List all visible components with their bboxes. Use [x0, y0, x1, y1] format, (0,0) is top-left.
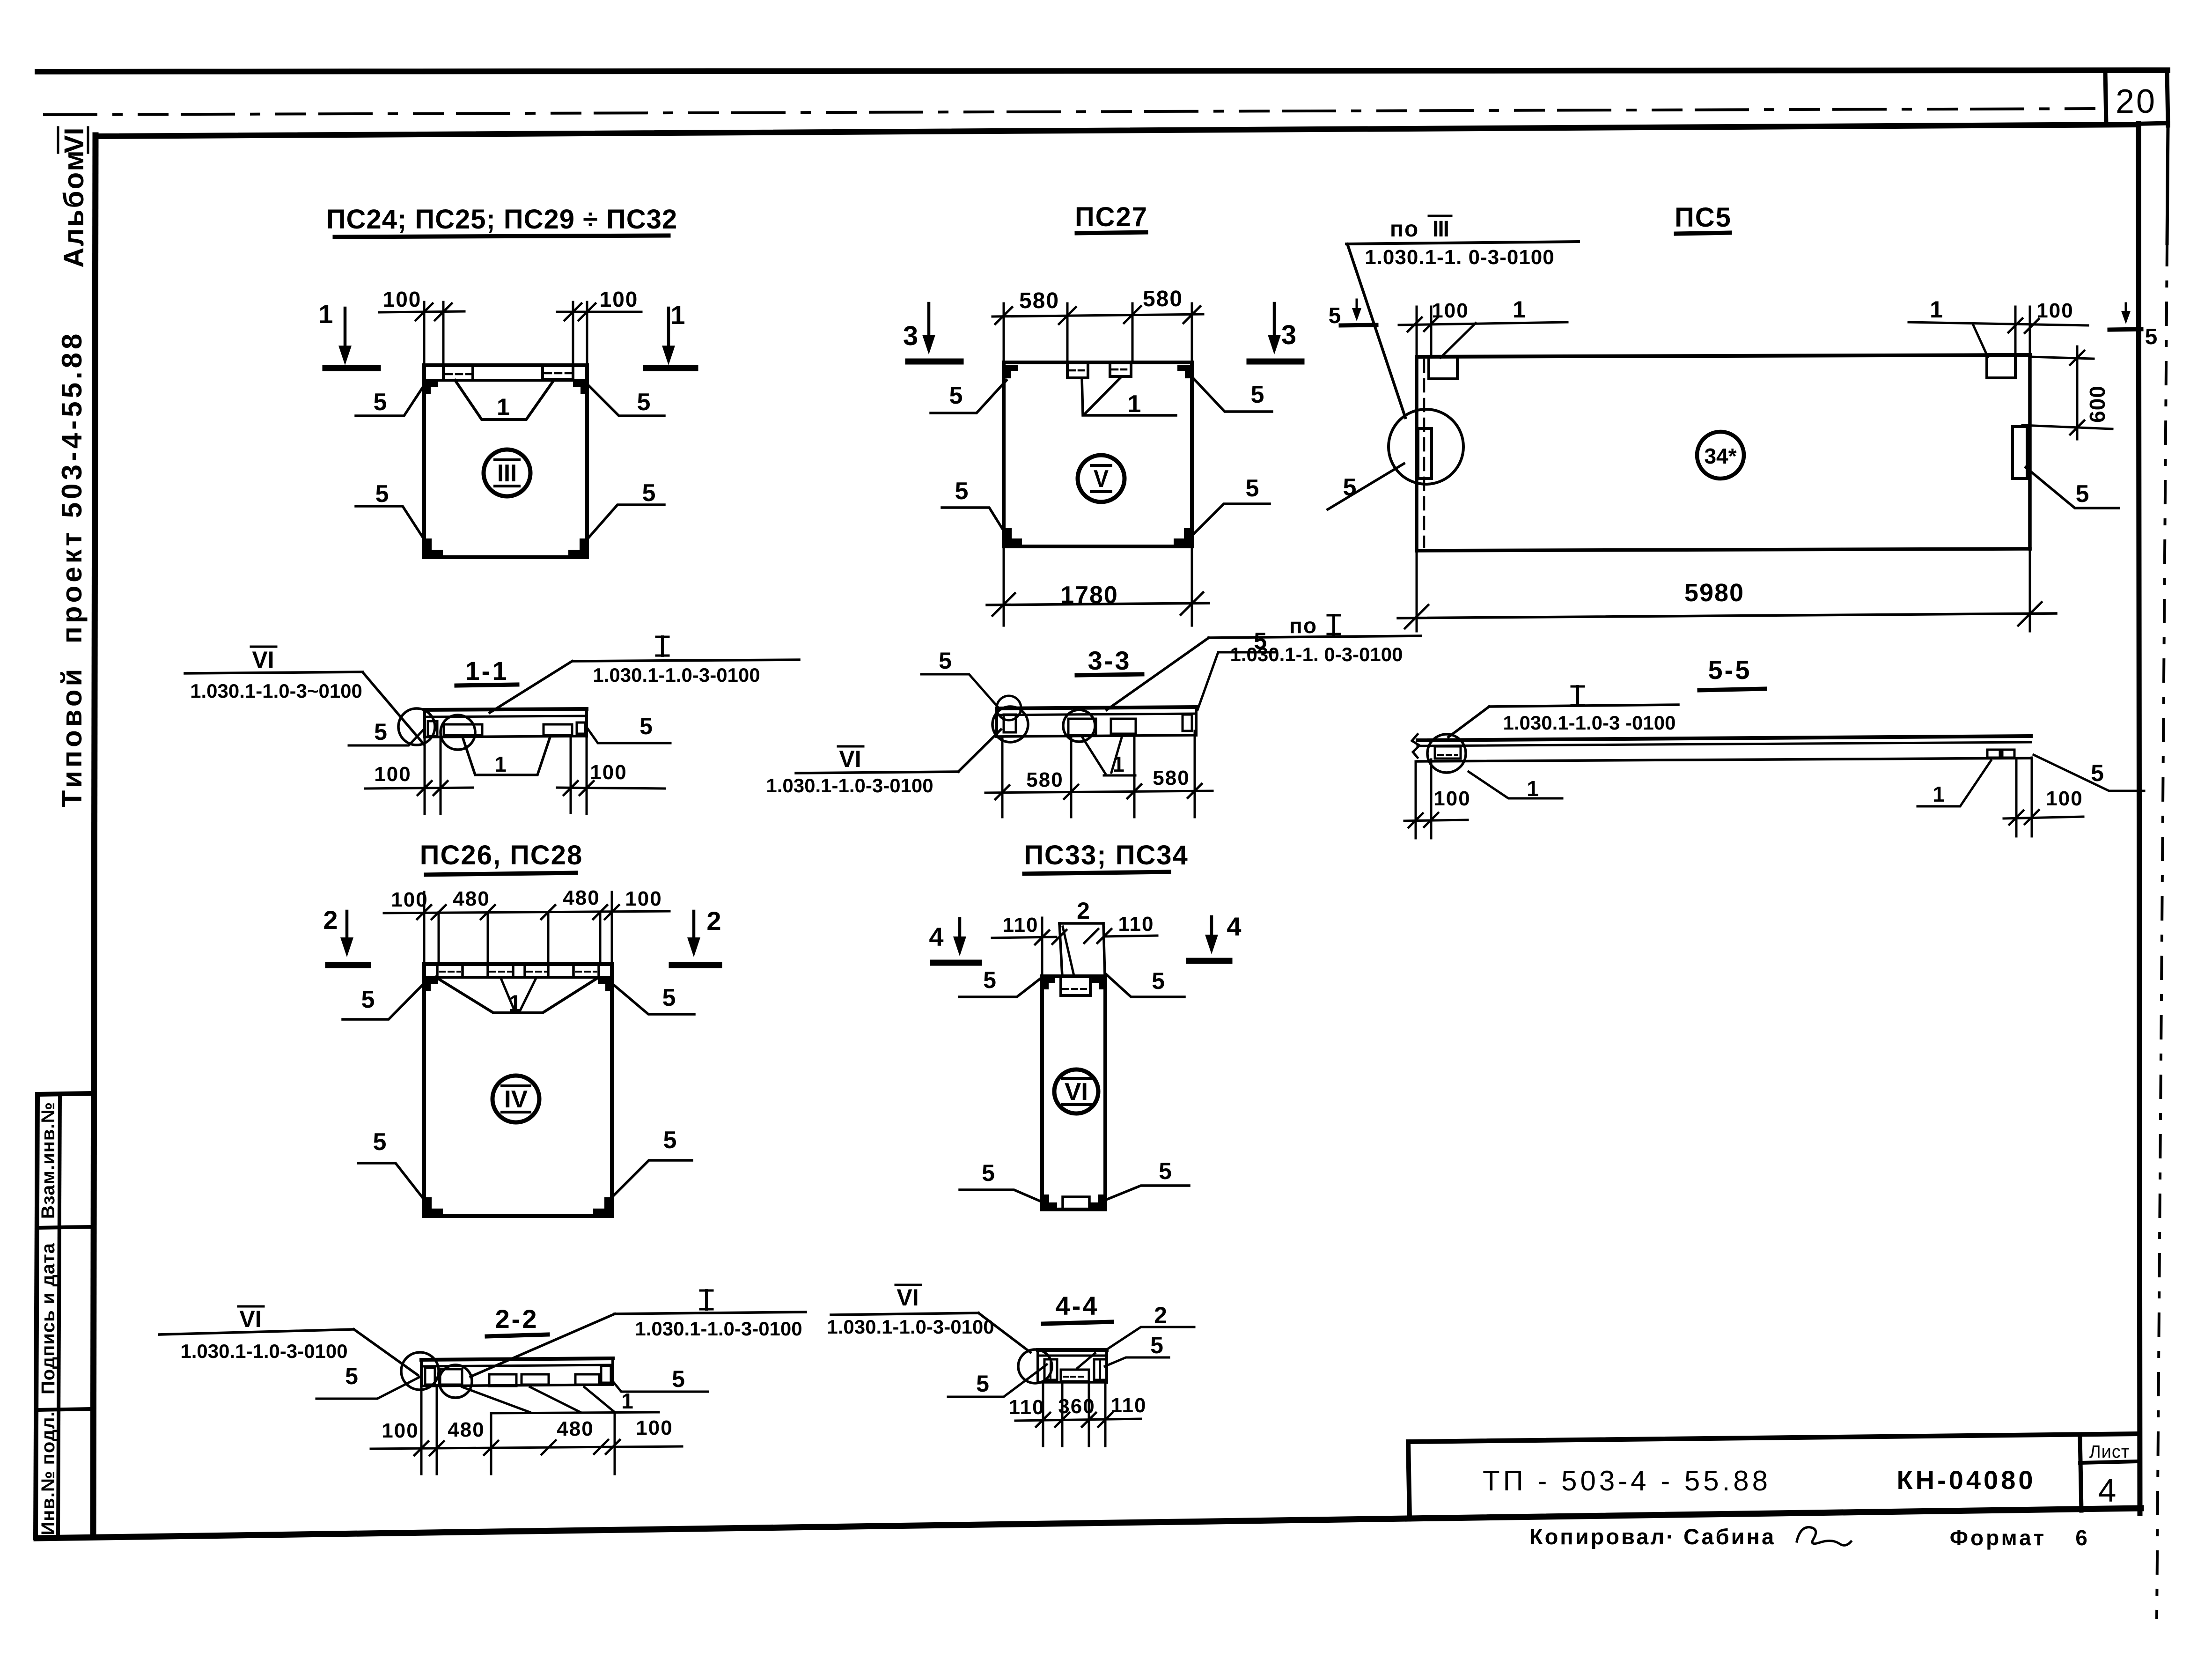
svg-text:5: 5: [2145, 324, 2159, 349]
svg-text:5: 5: [361, 986, 376, 1013]
svg-text:3: 3: [1281, 320, 1297, 350]
svg-text:100: 100: [1433, 787, 1470, 810]
svg-text:Типовой проект 503-4-55.88: Типовой проект 503-4-55.88: [56, 331, 88, 808]
svg-text:5-5: 5-5: [1708, 655, 1752, 685]
svg-text:100: 100: [2036, 299, 2073, 322]
svg-text:ПС27: ПС27: [1075, 202, 1148, 232]
svg-text:100: 100: [383, 287, 422, 311]
svg-text:2: 2: [706, 906, 722, 936]
svg-text:ПС24; ПС25; ПС29 ÷ ПС32: ПС24; ПС25; ПС29 ÷ ПС32: [326, 204, 677, 235]
svg-text:1.030.1-1.0-3-0100: 1.030.1-1.0-3-0100: [827, 1316, 994, 1338]
svg-text:580: 580: [1026, 768, 1063, 791]
svg-text:20: 20: [2116, 83, 2157, 120]
svg-text:VI: VI: [239, 1306, 261, 1332]
svg-text:4: 4: [929, 922, 944, 951]
svg-text:5: 5: [374, 389, 388, 416]
svg-text:VI: VI: [839, 746, 861, 772]
svg-text:5: 5: [1246, 475, 1260, 502]
svg-text:1: 1: [1930, 296, 1944, 323]
svg-text:1780: 1780: [1060, 582, 1118, 609]
svg-text:5: 5: [345, 1363, 359, 1389]
svg-text:110: 110: [1118, 913, 1154, 936]
svg-text:5: 5: [1159, 1158, 1173, 1184]
svg-text:5: 5: [949, 382, 964, 409]
svg-text:480: 480: [557, 1417, 594, 1440]
svg-text:Взам.инв.№: Взам.инв.№: [38, 1102, 59, 1219]
svg-text:580: 580: [1153, 767, 1190, 789]
svg-text:1: 1: [1933, 782, 1946, 806]
svg-text:Инв.№ подл.: Инв.№ подл.: [38, 1411, 59, 1535]
svg-text:1: 1: [1128, 391, 1142, 418]
svg-text:3: 3: [903, 321, 919, 351]
svg-text:110: 110: [1003, 914, 1039, 936]
svg-text:1: 1: [670, 300, 686, 330]
svg-text:34*: 34*: [1704, 444, 1736, 468]
svg-text:ТП - 503-4 - 55.88: ТП - 503-4 - 55.88: [1483, 1465, 1771, 1497]
svg-text:ПС33; ПС34: ПС33; ПС34: [1024, 840, 1189, 870]
svg-text:100: 100: [382, 1419, 419, 1442]
svg-text:5: 5: [672, 1366, 686, 1392]
svg-text:5: 5: [1254, 628, 1268, 654]
svg-text:1.030.1-1. 0-3-0100: 1.030.1-1. 0-3-0100: [1365, 246, 1555, 269]
svg-text:100: 100: [391, 888, 428, 911]
svg-text:5: 5: [374, 719, 388, 745]
svg-text:5: 5: [637, 389, 652, 416]
svg-text:1: 1: [1527, 776, 1540, 801]
svg-text:100: 100: [600, 287, 639, 311]
svg-text:580: 580: [1143, 287, 1183, 311]
svg-text:VI: VI: [897, 1284, 919, 1311]
svg-text:5: 5: [1251, 381, 1265, 408]
svg-text:1.030.1-1.0-3 -0100: 1.030.1-1.0-3 -0100: [1503, 712, 1676, 734]
svg-text:1: 1: [497, 394, 511, 420]
svg-text:5: 5: [639, 713, 654, 739]
svg-text:100: 100: [374, 763, 411, 786]
svg-text:5: 5: [983, 967, 997, 993]
svg-text:5: 5: [662, 984, 677, 1011]
svg-text:480: 480: [448, 1418, 485, 1441]
svg-text:5: 5: [939, 648, 953, 674]
svg-text:5: 5: [375, 480, 390, 508]
svg-text:5: 5: [976, 1371, 990, 1397]
svg-text:100: 100: [625, 887, 662, 910]
svg-text:1.030.1-1.0-3-0100: 1.030.1-1.0-3-0100: [593, 664, 760, 686]
svg-text:VI: VI: [1065, 1078, 1088, 1106]
svg-text:1: 1: [318, 299, 334, 329]
svg-text:5: 5: [2076, 480, 2090, 508]
svg-text:1.030.1-1.0-3-0100: 1.030.1-1.0-3-0100: [635, 1318, 802, 1340]
svg-text:VI: VI: [252, 647, 274, 673]
svg-text:110: 110: [1009, 1396, 1045, 1419]
svg-text:2: 2: [323, 905, 338, 935]
svg-text:100: 100: [2046, 787, 2083, 810]
svg-text:5: 5: [1152, 968, 1166, 994]
svg-text:2-2: 2-2: [495, 1304, 539, 1334]
svg-text:1.030.1-1.0-3-0100: 1.030.1-1.0-3-0100: [766, 774, 933, 796]
svg-text:V: V: [1094, 465, 1109, 493]
svg-text:III: III: [497, 460, 517, 487]
svg-text:1: 1: [494, 752, 507, 776]
svg-text:4-4: 4-4: [1056, 1291, 1099, 1320]
svg-text:Альбом: Альбом: [58, 149, 89, 268]
svg-text:5: 5: [955, 478, 970, 505]
svg-text:580: 580: [1019, 288, 1059, 313]
svg-text:Формат: Формат: [1950, 1526, 2046, 1550]
svg-text:ПС5: ПС5: [1675, 202, 1732, 233]
svg-text:1.030.1-1.0-3~0100: 1.030.1-1.0-3~0100: [190, 680, 362, 702]
svg-text:по: по: [1289, 613, 1317, 638]
svg-text:III: III: [1433, 217, 1448, 242]
svg-text:100: 100: [636, 1416, 673, 1439]
svg-text:5: 5: [642, 479, 657, 507]
svg-text:1: 1: [1513, 296, 1527, 323]
svg-text:КН-04080: КН-04080: [1897, 1465, 2036, 1495]
svg-text:480: 480: [563, 886, 600, 909]
svg-text:100: 100: [590, 761, 627, 784]
svg-text:600: 600: [2085, 385, 2109, 423]
svg-text:2: 2: [1154, 1302, 1168, 1328]
svg-text:5: 5: [663, 1127, 678, 1154]
svg-text:VI: VI: [59, 128, 89, 154]
svg-text:6: 6: [2075, 1526, 2088, 1550]
svg-text:IV: IV: [504, 1086, 528, 1113]
svg-text:2: 2: [1077, 898, 1091, 924]
svg-text:по: по: [1390, 217, 1419, 242]
svg-text:Подпись и дата: Подпись и дата: [38, 1243, 59, 1394]
svg-text:4: 4: [2098, 1472, 2117, 1509]
svg-text:ПС26, ПС28: ПС26, ПС28: [420, 840, 583, 870]
svg-text:Лист: Лист: [2089, 1442, 2130, 1462]
svg-text:5980: 5980: [1684, 579, 1744, 607]
svg-text:5: 5: [982, 1160, 996, 1186]
svg-text:1: 1: [621, 1389, 634, 1413]
svg-text:Копировал· Сабина: Копировал· Сабина: [1529, 1524, 1776, 1549]
svg-text:1-1: 1-1: [465, 656, 509, 686]
svg-text:110: 110: [1111, 1394, 1147, 1417]
svg-text:5: 5: [373, 1128, 388, 1156]
svg-text:4: 4: [1227, 912, 1242, 941]
svg-text:1.030.1-1.0-3-0100: 1.030.1-1.0-3-0100: [180, 1340, 347, 1362]
svg-text:3-3: 3-3: [1088, 646, 1132, 675]
svg-text:5: 5: [1150, 1332, 1164, 1358]
svg-text:480: 480: [453, 887, 490, 910]
